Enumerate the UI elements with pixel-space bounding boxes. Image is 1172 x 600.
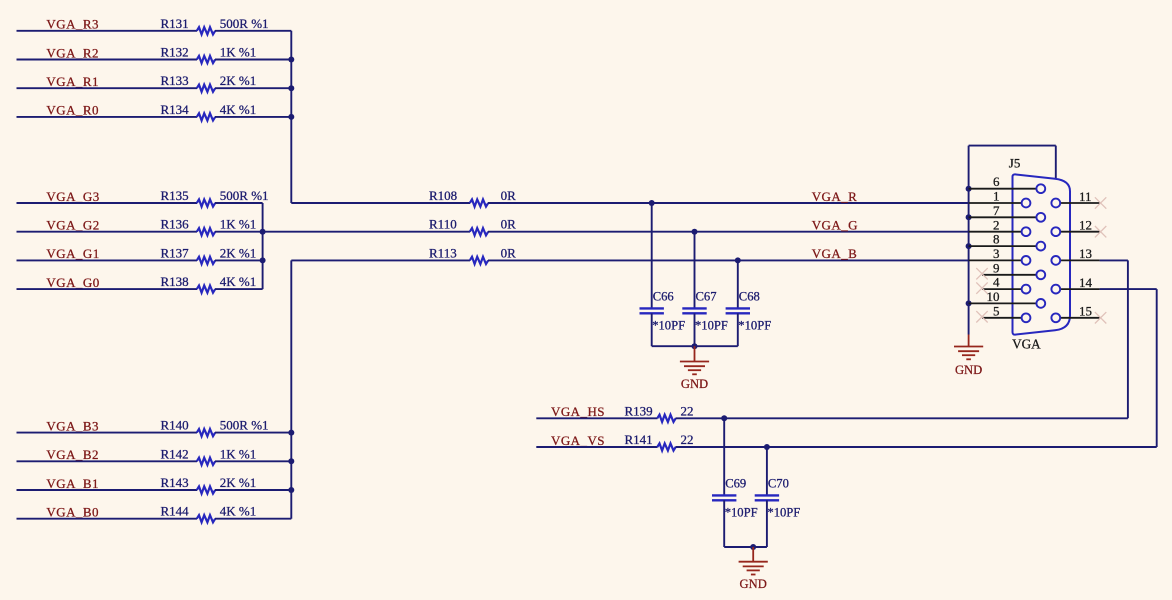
svg-text:8: 8 bbox=[993, 232, 1000, 247]
wire VGA_G0 right segment bbox=[215, 288, 263, 290]
svg-text:9: 9 bbox=[993, 260, 1000, 275]
svg-text:1K %1: 1K %1 bbox=[220, 45, 256, 60]
svg-text:R140: R140 bbox=[161, 418, 189, 433]
svg-text:*10PF: *10PF bbox=[652, 319, 685, 333]
wire joining C69-C70 bottoms bbox=[724, 546, 767, 548]
svg-text:VGA_B3: VGA_B3 bbox=[46, 418, 99, 433]
resistor R135 bbox=[197, 199, 215, 206]
svg-text:*10PF: *10PF bbox=[767, 506, 800, 520]
wire VGA_B3 left segment bbox=[17, 432, 198, 434]
svg-text:2K %1: 2K %1 bbox=[220, 245, 256, 260]
wire VGA_VS left segment bbox=[536, 446, 657, 448]
svg-text:R143: R143 bbox=[161, 475, 189, 490]
pin 10 of J5 bbox=[969, 302, 1037, 304]
svg-text:R131: R131 bbox=[161, 16, 189, 31]
svg-text:C69: C69 bbox=[725, 477, 746, 491]
junction dots on VGA_G bus bbox=[260, 229, 266, 235]
wire GND bus of J5 bbox=[968, 146, 970, 335]
pin 11 of J5 bbox=[1060, 202, 1099, 204]
svg-text:22: 22 bbox=[681, 403, 694, 418]
svg-text:VGA_G0: VGA_G0 bbox=[46, 275, 99, 290]
ground GND under C66-C68 bbox=[694, 346, 696, 361]
pin 1 of J5 bbox=[969, 202, 1022, 204]
svg-text:J5: J5 bbox=[1009, 156, 1021, 171]
svg-text:R139: R139 bbox=[625, 403, 653, 418]
svg-text:C67: C67 bbox=[696, 290, 717, 304]
resistor R140 bbox=[197, 429, 215, 436]
wire VGA_B3 right segment bbox=[215, 432, 291, 434]
svg-text:C70: C70 bbox=[768, 477, 789, 491]
wire VGA_G2 left segment bbox=[17, 231, 198, 233]
resistor R143 bbox=[197, 486, 215, 493]
svg-text:4K %1: 4K %1 bbox=[220, 504, 256, 519]
svg-text:2K %1: 2K %1 bbox=[220, 73, 256, 88]
wire VGA_B2 left segment bbox=[17, 460, 198, 462]
svg-text:R108: R108 bbox=[429, 188, 457, 203]
resistor R113 0R bbox=[470, 257, 488, 264]
ground GND under C69-C70 bbox=[752, 547, 754, 562]
wire VGA_B row to connector bbox=[488, 259, 969, 261]
svg-text:VGA_B0: VGA_B0 bbox=[46, 505, 99, 520]
pin 14 of J5 bbox=[1060, 288, 1099, 290]
svg-text:VGA: VGA bbox=[1012, 336, 1041, 351]
resistor R134 bbox=[197, 113, 215, 120]
svg-text:R138: R138 bbox=[161, 274, 189, 289]
wire VGA_G2 right segment bbox=[215, 231, 263, 233]
resistor R137 bbox=[197, 257, 215, 264]
junction dot at C67 bottom bbox=[692, 343, 698, 349]
resistor R144 bbox=[197, 515, 215, 522]
wire joining C66-C68 bottoms bbox=[652, 345, 738, 347]
svg-text:1K %1: 1K %1 bbox=[220, 217, 256, 232]
svg-text:500R %1: 500R %1 bbox=[220, 188, 269, 203]
svg-text:VGA_R0: VGA_R0 bbox=[46, 103, 99, 118]
svg-text:VGA_R3: VGA_R3 bbox=[46, 17, 99, 32]
resistor R139 22 bbox=[657, 415, 675, 422]
wire VGA_R row to connector bbox=[488, 202, 969, 204]
resistor R142 bbox=[197, 458, 215, 465]
svg-text:VGA_R2: VGA_R2 bbox=[46, 45, 99, 60]
svg-text:VGA_G3: VGA_G3 bbox=[46, 189, 99, 204]
wire VGA_VS to right riser bbox=[676, 446, 1157, 448]
svg-text:R137: R137 bbox=[161, 245, 190, 260]
svg-text:7: 7 bbox=[993, 203, 1000, 218]
pin 13 of J5 bbox=[1060, 259, 1099, 261]
wire VGA_R3 right segment bbox=[215, 30, 291, 32]
svg-text:R113: R113 bbox=[429, 245, 457, 260]
junction dots on VGA_R bus bbox=[288, 57, 294, 63]
wire VGA_B2 right segment bbox=[215, 460, 291, 462]
wire VGA_G3 left segment bbox=[17, 202, 198, 204]
capacitor C68 bbox=[737, 260, 739, 308]
wire VGA_R2 right segment bbox=[215, 59, 291, 61]
svg-text:11: 11 bbox=[1079, 189, 1092, 204]
pin 8 of J5 bbox=[969, 245, 1037, 247]
wire VGA_G3 right segment bbox=[215, 202, 263, 204]
wire bus VGA_R vertical bbox=[290, 31, 292, 203]
svg-text:C68: C68 bbox=[739, 290, 760, 304]
pin 4 of J5 bbox=[982, 288, 1022, 290]
svg-text:R110: R110 bbox=[429, 217, 457, 232]
wire VGA_B0 left segment bbox=[17, 518, 198, 520]
resistor R108 0R bbox=[470, 199, 488, 206]
junction dots on J5 GND bus bbox=[966, 186, 972, 192]
svg-text:VGA_R: VGA_R bbox=[812, 189, 858, 204]
svg-text:*10PF: *10PF bbox=[738, 319, 771, 333]
svg-text:1K %1: 1K %1 bbox=[220, 446, 256, 461]
wire shield top bbox=[969, 145, 1056, 147]
pin 12 of J5 bbox=[1060, 231, 1099, 233]
svg-text:2: 2 bbox=[993, 217, 1000, 232]
svg-text:R132: R132 bbox=[161, 45, 189, 60]
wire VGA_G0 left segment bbox=[17, 288, 198, 290]
ground GND under J5 bus bbox=[968, 335, 970, 347]
junction dot VGA_VS cap tap bbox=[764, 444, 770, 450]
resistor R132 bbox=[197, 56, 215, 63]
svg-text:VGA_B: VGA_B bbox=[812, 246, 858, 261]
wire VGA_G row to connector bbox=[488, 231, 969, 233]
svg-text:R141: R141 bbox=[625, 432, 653, 447]
svg-text:VGA_G: VGA_G bbox=[812, 218, 858, 233]
wire VGA_R1 left segment bbox=[17, 87, 198, 89]
svg-text:GND: GND bbox=[740, 577, 767, 591]
wire VGA_R3 left segment bbox=[17, 30, 198, 32]
wire VGA_HS left segment bbox=[536, 417, 657, 419]
wire VGA_G1 right segment bbox=[215, 259, 263, 261]
svg-text:0R: 0R bbox=[501, 188, 516, 203]
resistor R138 bbox=[197, 286, 215, 293]
wire VGA_R2 left segment bbox=[17, 59, 198, 61]
svg-text:VGA_HS: VGA_HS bbox=[551, 404, 605, 419]
svg-text:R144: R144 bbox=[161, 504, 190, 519]
junction node C68 tap bbox=[735, 257, 741, 263]
resistor R136 bbox=[197, 228, 215, 235]
pin 15 of J5 bbox=[1060, 317, 1099, 319]
svg-text:*10PF: *10PF bbox=[695, 319, 728, 333]
wire VGA_R0 left segment bbox=[17, 116, 198, 118]
svg-text:15: 15 bbox=[1079, 304, 1092, 319]
junction dots on VGA_B bus bbox=[288, 430, 294, 436]
capacitor C66 bbox=[651, 203, 653, 308]
svg-text:2K %1: 2K %1 bbox=[220, 475, 256, 490]
svg-text:14: 14 bbox=[1079, 275, 1093, 290]
svg-text:GND: GND bbox=[681, 377, 708, 391]
wire VGA_HS to right riser bbox=[676, 417, 1128, 419]
wire VGA_B0 right segment bbox=[215, 518, 291, 520]
wire VGA_R row left of R108 bbox=[291, 202, 470, 204]
junction dot VGA_HS cap tap bbox=[721, 415, 727, 421]
resistor R133 bbox=[197, 85, 215, 92]
wire VGA_R1 right segment bbox=[215, 87, 291, 89]
connector J5 D-sub body outline bbox=[1013, 174, 1071, 334]
pin 9 of J5 bbox=[982, 274, 1036, 276]
svg-text:22: 22 bbox=[681, 432, 694, 447]
svg-text:VGA_G2: VGA_G2 bbox=[46, 218, 99, 233]
svg-text:GND: GND bbox=[955, 363, 982, 377]
pin 3 of J5 bbox=[969, 259, 1022, 261]
junction node C67 tap bbox=[692, 229, 698, 235]
wire VGA_G1 left segment bbox=[17, 259, 198, 261]
wire VGA_B row left of R113 bbox=[291, 259, 470, 261]
wire VGA_B1 right segment bbox=[215, 489, 291, 491]
svg-text:13: 13 bbox=[1079, 246, 1092, 261]
wire bus VGA_G vertical bbox=[262, 203, 264, 289]
svg-text:500R %1: 500R %1 bbox=[220, 418, 269, 433]
svg-text:0R: 0R bbox=[501, 217, 516, 232]
svg-text:3: 3 bbox=[993, 246, 1000, 261]
pin 5 of J5 bbox=[982, 317, 1022, 319]
svg-text:0R: 0R bbox=[501, 245, 516, 260]
svg-text:*10PF: *10PF bbox=[725, 506, 758, 520]
wire VGA_G row left of R110 bbox=[263, 231, 470, 233]
svg-text:500R %1: 500R %1 bbox=[220, 16, 269, 31]
capacitor C67 bbox=[694, 232, 696, 309]
svg-text:6: 6 bbox=[993, 174, 1000, 189]
svg-text:12: 12 bbox=[1079, 218, 1092, 233]
pin 7 of J5 bbox=[969, 216, 1037, 218]
svg-text:R136: R136 bbox=[161, 217, 190, 232]
capacitor C70 bbox=[766, 447, 768, 495]
wire VGA_VS riser to pin row bbox=[1156, 289, 1158, 447]
svg-text:4K %1: 4K %1 bbox=[220, 102, 256, 117]
junction node C66 tap bbox=[649, 200, 655, 206]
svg-text:R142: R142 bbox=[161, 446, 189, 461]
svg-text:VGA_B2: VGA_B2 bbox=[46, 447, 99, 462]
resistor R131 bbox=[197, 27, 215, 34]
svg-text:10: 10 bbox=[987, 289, 1000, 304]
svg-text:VGA_G1: VGA_G1 bbox=[46, 246, 99, 261]
wire VGA_HS riser to pin row bbox=[1127, 260, 1129, 418]
svg-text:4K %1: 4K %1 bbox=[220, 274, 256, 289]
svg-text:R134: R134 bbox=[161, 102, 190, 117]
pin 6 of J5 bbox=[969, 188, 1037, 190]
wire VGA_B1 left segment bbox=[17, 489, 198, 491]
svg-text:5: 5 bbox=[993, 303, 1000, 318]
wire bus VGA_B vertical bbox=[290, 260, 292, 518]
resistor R110 0R bbox=[470, 228, 488, 235]
svg-text:VGA_B1: VGA_B1 bbox=[46, 476, 99, 491]
svg-text:C66: C66 bbox=[653, 290, 674, 304]
svg-text:VGA_VS: VGA_VS bbox=[551, 433, 605, 448]
svg-text:R133: R133 bbox=[161, 73, 189, 88]
junction dot at GND stem bbox=[750, 544, 756, 550]
svg-text:4: 4 bbox=[993, 275, 1000, 290]
svg-text:R135: R135 bbox=[161, 188, 189, 203]
svg-text:VGA_R1: VGA_R1 bbox=[46, 74, 99, 89]
capacitor C69 bbox=[723, 418, 725, 495]
svg-text:1: 1 bbox=[993, 189, 1000, 204]
pin 2 of J5 bbox=[969, 231, 1022, 233]
wire VGA_R0 right segment bbox=[215, 116, 291, 118]
resistor R141 22 bbox=[657, 443, 675, 450]
